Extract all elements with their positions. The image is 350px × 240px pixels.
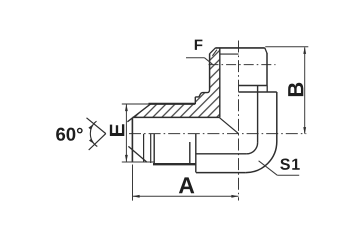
top chamfer of nose: [127, 104, 150, 122]
port right edge: [266, 53, 268, 86]
E dimension line: [125, 104, 127, 162]
thread OD bottom line: [153, 163, 196, 165]
horizontal centerline: [129, 133, 306, 135]
60 degree cone symbol upper leg: [87, 118, 106, 134]
label S1: [280, 159, 299, 170]
inner corner arc: [247, 143, 258, 154]
B extension line top: [265, 46, 308, 48]
port mouth chamfer line: [220, 53, 239, 55]
thread crest top line thick part: [149, 103, 196, 105]
port top face: [215, 47, 264, 49]
E bottom arrow: [125, 155, 128, 162]
thread start edge 1: [150, 134, 152, 163]
gauge plane centerline of top thread: [209, 64, 276, 66]
F leader slant: [204, 58, 212, 64]
drill cone slant to axis: [219, 117, 238, 133]
body bottom line: [196, 153, 247, 155]
vertical centerline: [238, 41, 240, 201]
A left extension line: [132, 165, 134, 201]
thread start edge 2: [153, 134, 155, 164]
step up to elbow block (top): [194, 97, 196, 104]
elbow right outer edge: [276, 92, 278, 142]
chamfer circle edge: [143, 134, 145, 162]
neck step down: [266, 86, 268, 93]
vertical body inner edge: [257, 86, 259, 143]
A left arrow: [133, 195, 140, 198]
S1 leader underline: [277, 174, 299, 176]
port bore wall (hatch right boundary): [219, 48, 221, 118]
A dimension line: [133, 195, 239, 197]
60 degree cone symbol lower leg: [89, 134, 106, 150]
elbow bottom outer line: [196, 172, 246, 174]
left face: [131, 118, 133, 163]
F leader underline: [186, 57, 204, 59]
label 60deg: [56, 128, 83, 141]
A right arrow: [231, 195, 238, 198]
B dimension line: [304, 47, 306, 133]
port top-left chamfer: [209, 48, 215, 54]
outer corner arc: [246, 142, 277, 173]
label A: [179, 177, 194, 193]
E top arrow: [125, 104, 128, 111]
shoulder below top thread (right half): [239, 85, 268, 87]
S1 leader: [259, 161, 278, 175]
label E: [110, 124, 124, 136]
staircase runout to port wall: [195, 89, 209, 97]
section hatch region (body cut): [133, 48, 220, 118]
E bottom extension line: [122, 161, 154, 163]
label B: [288, 83, 303, 96]
B top arrow: [303, 47, 306, 54]
bore line (hatch bottom boundary): [133, 116, 220, 118]
port outer wall left edge: [209, 54, 211, 89]
elbow top shoulder: [239, 91, 277, 93]
F label: [195, 40, 203, 50]
60 degree arc: [90, 121, 97, 146]
arc arrowhead bottom: [89, 139, 95, 145]
thread end edge: [189, 142, 191, 165]
thread crest top line thin part with E extension: [122, 103, 150, 105]
B bottom arrow: [303, 127, 306, 134]
body step edge: [195, 134, 197, 173]
bottom chamfer of nose: [128, 146, 147, 162]
arc arrowhead top: [88, 124, 93, 130]
port top-right chamfer: [265, 48, 267, 53]
inner corner chamfer line: [212, 50, 217, 56]
